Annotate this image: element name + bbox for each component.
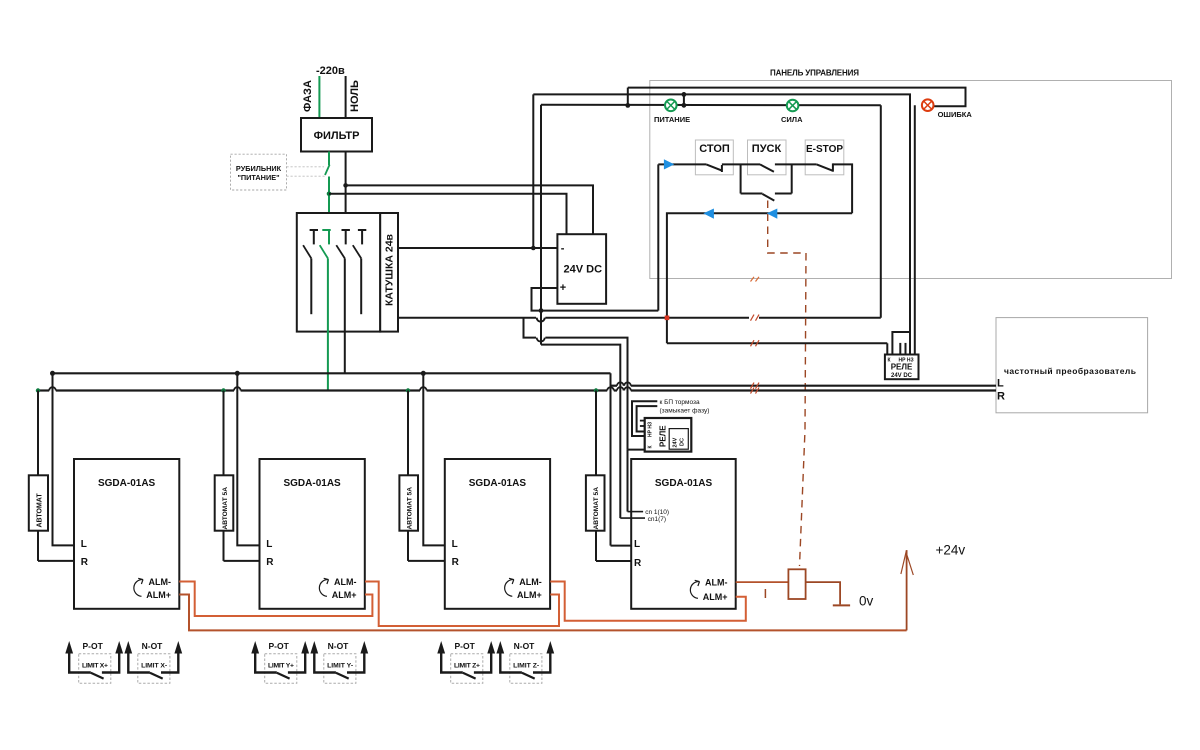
switch self-hold contact bbox=[763, 194, 775, 201]
wire E-STOP to corner and down bbox=[833, 164, 852, 213]
node junction dot phase bbox=[327, 192, 332, 197]
wire STOP to PUSK bbox=[722, 163, 760, 165]
symbol curved arrow drive2 bbox=[319, 578, 328, 596]
svg-text:N-OT: N-OT bbox=[514, 641, 536, 651]
wire bus L jog to freq converter L bbox=[611, 382, 997, 385]
dashed actuation link bbox=[765, 201, 806, 599]
limit switch P-OT LIMIT Y+ bbox=[251, 641, 309, 683]
pin cn1(10) stub bbox=[628, 509, 670, 516]
svg-text:КАТУШКА 24в: КАТУШКА 24в bbox=[384, 233, 396, 306]
wire bus L corner down (feeds drive4 L and freq L) bbox=[610, 373, 612, 545]
svg-text:ALM+: ALM+ bbox=[703, 592, 728, 602]
wire top feed (y=94.4) into panel to relay bbox=[533, 94, 910, 354]
breaker QF3 АВТОМАТ 5А bbox=[399, 475, 418, 530]
power supply 24V DC box bbox=[557, 234, 606, 304]
svg-text:DC: DC bbox=[680, 438, 686, 446]
svg-text:АВТОМАТ 5А: АВТОМАТ 5А bbox=[593, 487, 600, 530]
wire to brake PSU (k BP tormoza) bbox=[632, 399, 700, 436]
svg-text:(замыкает фазу): (замыкает фазу) bbox=[660, 408, 710, 415]
wire drive4 R tap via breaker bbox=[596, 391, 631, 562]
svg-text:ФАЗА: ФАЗА bbox=[302, 80, 314, 112]
contactor K1 box bbox=[297, 213, 398, 332]
ground 0v symbol bbox=[833, 594, 874, 609]
svg-text:+: + bbox=[560, 282, 566, 294]
bus L (upper) bbox=[53, 372, 611, 374]
svg-text:LIMIT Z+: LIMIT Z+ bbox=[454, 663, 480, 670]
switch PUSK contact bbox=[760, 164, 774, 171]
node PHASE label (rotated) bbox=[302, 80, 314, 112]
svg-text:R: R bbox=[634, 558, 642, 569]
svg-text:L: L bbox=[997, 377, 1004, 389]
svg-text:частотный преобразователь: частотный преобразователь bbox=[1004, 366, 1136, 376]
servo drive SGDA-01AS #3 bbox=[445, 459, 550, 609]
node NEUTRAL label (rotated) bbox=[349, 80, 361, 112]
servo drive SGDA-01AS #2 bbox=[260, 459, 365, 609]
svg-text:24V: 24V bbox=[673, 437, 679, 447]
button PUSK box bbox=[748, 140, 787, 175]
svg-text:R: R bbox=[997, 391, 1005, 403]
svg-text:ОШИБКА: ОШИБКА bbox=[938, 110, 973, 119]
wire drive2 R tap via breaker bbox=[224, 391, 260, 561]
wire vertical to PITANIE lamp wire bbox=[540, 105, 542, 345]
wire cn1(7) feed (lower hook) bbox=[541, 345, 620, 518]
switch STOP contact bbox=[706, 164, 722, 172]
arrow blue left 1 bbox=[703, 209, 714, 219]
indicator lamp PITANIE bbox=[654, 100, 690, 124]
svg-text:РЕЛЕ: РЕЛЕ bbox=[891, 363, 913, 372]
svg-text:ПАНЕЛЬ УПРАВЛЕНИЯ: ПАНЕЛЬ УПРАВЛЕНИЯ bbox=[770, 69, 859, 78]
svg-text:ALM+: ALM+ bbox=[146, 590, 171, 600]
wire ALM chain drive1- to drive2+ bbox=[179, 582, 372, 617]
wire ALM drive1+ to +24v rail bbox=[179, 595, 906, 631]
svg-text:+24v: +24v bbox=[936, 543, 966, 558]
wire self-hold branch left vertical bbox=[740, 164, 742, 193]
node bus R green taps bbox=[36, 388, 40, 392]
svg-text:LIMIT X-: LIMIT X- bbox=[141, 663, 167, 670]
svg-text:N-OT: N-OT bbox=[142, 641, 164, 651]
svg-text:N-OT: N-OT bbox=[328, 641, 350, 651]
breaker QF2 АВТОМАТ 5А bbox=[215, 475, 234, 530]
wire relay coil pin k from cn1(10) net bbox=[628, 449, 645, 451]
cable crossing hash marks bbox=[749, 277, 759, 394]
servo drive SGDA-01AS #1 bbox=[74, 459, 179, 609]
svg-text:E-STOP: E-STOP bbox=[806, 144, 843, 155]
servo drive SGDA-01AS #4 bbox=[631, 459, 736, 609]
wire crossing hop on SILA return bbox=[537, 318, 545, 322]
wire drive4 ALM- to relay coil bbox=[736, 581, 789, 583]
wire PUSK to E-STOP bbox=[775, 163, 817, 165]
relay U2 РЕЛЕ 24V DC (rotated) bbox=[645, 418, 692, 452]
wire to relay coil pin K bbox=[667, 342, 887, 344]
wire cn1(10) feed from SILA return bbox=[524, 318, 628, 512]
wire zamykaet fazu bbox=[637, 406, 710, 431]
node dot minus-wire junction bbox=[531, 246, 536, 251]
contactor pole 1 bbox=[303, 230, 318, 314]
arrow blue left 2 bbox=[767, 209, 778, 219]
button STOP box bbox=[695, 140, 733, 175]
wire start vertical down to +24 loop bbox=[657, 164, 659, 310]
svg-text:P-OT: P-OT bbox=[83, 641, 104, 651]
svg-text:LIMIT Y-: LIMIT Y- bbox=[327, 663, 353, 670]
svg-text:R: R bbox=[81, 557, 89, 568]
limit switch N-OT LIMIT Y- bbox=[310, 641, 368, 683]
wire drive2 L tap bbox=[237, 373, 259, 545]
node dots connector bbox=[682, 92, 687, 97]
indicator lamp OSHIBKA (red) bbox=[922, 99, 972, 119]
pin cn1(7) stub bbox=[620, 516, 666, 523]
relay (right) coil hook pin bbox=[892, 332, 910, 355]
button E-STOP box bbox=[805, 140, 844, 175]
svg-text:L: L bbox=[634, 539, 640, 550]
wire contactor lower output to panel (SILA return) bbox=[398, 318, 881, 322]
svg-text:cn 1(10): cn 1(10) bbox=[645, 509, 669, 516]
control panel enclosure bbox=[650, 69, 1172, 279]
wire self-hold branch right vertical bbox=[791, 164, 793, 193]
svg-text:ПУСК: ПУСК bbox=[752, 143, 782, 155]
svg-text:ALM+: ALM+ bbox=[332, 590, 357, 600]
wire coil to 0v bbox=[806, 582, 841, 604]
svg-text:ALM-: ALM- bbox=[519, 577, 542, 587]
wire drive1 R tap via breaker bbox=[38, 391, 74, 561]
switch disconnector (phase, green) bbox=[325, 152, 330, 231]
svg-text:АВТОМАТ 5А: АВТОМАТ 5А bbox=[222, 487, 229, 530]
limit switch P-OT LIMIT X+ bbox=[65, 641, 123, 683]
svg-text:-220в: -220в bbox=[316, 65, 345, 77]
wire ALM chain drive2- to drive3+ bbox=[365, 582, 559, 627]
indicator lamp SILA bbox=[781, 100, 803, 124]
wire return line bbox=[667, 213, 852, 343]
contactor pole 4 bbox=[353, 230, 367, 314]
node -220v supply label bbox=[316, 65, 345, 77]
symbol curved arrow drive4 bbox=[690, 580, 699, 598]
svg-text:РЕЛЕ: РЕЛЕ bbox=[659, 425, 668, 447]
svg-text:НОЛЬ: НОЛЬ bbox=[349, 80, 361, 112]
svg-text:ФИЛЬТР: ФИЛЬТР bbox=[314, 130, 360, 142]
breaker QF4 АВТОМАТ 5А bbox=[586, 475, 605, 530]
wire neutral into filter bbox=[345, 76, 347, 118]
svg-text:СТОП: СТОП bbox=[699, 143, 730, 155]
svg-text:LIMIT Y+: LIMIT Y+ bbox=[268, 663, 294, 670]
wire switch row start bbox=[658, 163, 706, 165]
node dot at +24 net bbox=[539, 308, 544, 313]
svg-text:ALM-: ALM- bbox=[334, 577, 357, 587]
svg-text:SGDA-01AS: SGDA-01AS bbox=[655, 478, 713, 489]
breaker QF1 АВТОМАТ bbox=[29, 475, 48, 530]
relay (right) stub pins NR bbox=[900, 343, 905, 355]
wire vertical to panel bus (from minus wire) bbox=[532, 94, 534, 248]
limit switch P-OT LIMIT Z+ bbox=[437, 641, 495, 683]
switch E-STOP contact bbox=[817, 163, 833, 171]
wire self-hold branch bbox=[741, 193, 792, 195]
wire neutral filter to contactor bbox=[345, 152, 347, 231]
svg-text:к БП тормоза: к БП тормоза bbox=[660, 399, 701, 406]
node junction dot neutral bbox=[343, 183, 348, 188]
svg-text:SGDA-01AS: SGDA-01AS bbox=[469, 478, 527, 489]
svg-text:SGDA-01AS: SGDA-01AS bbox=[98, 478, 156, 489]
wire ALM chain drive3- to drive4+ bbox=[550, 582, 746, 621]
rubilnik PITANIE callout box bbox=[231, 154, 287, 190]
svg-text:P-OT: P-OT bbox=[269, 641, 290, 651]
relay U3 24VDC box (right) bbox=[885, 355, 919, 380]
limit switch N-OT LIMIT Z- bbox=[496, 641, 554, 683]
svg-text:R: R bbox=[266, 557, 274, 568]
wire PITANIE lamp line bbox=[541, 104, 881, 107]
contactor pole 2 (phase, green) bbox=[320, 230, 331, 391]
filter F1 bbox=[301, 118, 372, 152]
symbol curved arrow drive1 bbox=[134, 578, 143, 596]
svg-text:LIMIT X+: LIMIT X+ bbox=[82, 663, 108, 670]
power +24v riser arrow bbox=[901, 543, 965, 631]
svg-text:АВТОМАТ 5А: АВТОМАТ 5А bbox=[407, 487, 414, 530]
svg-text:0v: 0v bbox=[859, 594, 874, 609]
svg-text:L: L bbox=[266, 539, 272, 550]
relay (right) pin K drop bbox=[886, 343, 888, 354]
arrow blue right bbox=[664, 159, 674, 169]
svg-text:РУБИЛЬНИК: РУБИЛЬНИК bbox=[236, 164, 282, 173]
svg-text:LIMIT Z-: LIMIT Z- bbox=[513, 663, 539, 670]
svg-text:cn1(7): cn1(7) bbox=[648, 516, 666, 523]
wire connector right of PITANIE lamp bbox=[683, 94, 685, 105]
svg-text:ALM-: ALM- bbox=[705, 578, 728, 588]
svg-text:L: L bbox=[452, 539, 458, 550]
svg-text:24V DC: 24V DC bbox=[891, 373, 913, 379]
svg-text:P-OT: P-OT bbox=[455, 641, 476, 651]
relay U2 stub pins bbox=[640, 421, 645, 426]
wire OSHIBKA lamp to relay NZ pin bbox=[914, 105, 916, 354]
wire drive4 L tap bbox=[611, 545, 632, 547]
svg-text:ALM+: ALM+ bbox=[517, 590, 542, 600]
bus R (lower) to freq converter R bbox=[38, 387, 996, 390]
svg-text:SGDA-01AS: SGDA-01AS bbox=[283, 478, 341, 489]
svg-text:L: L bbox=[81, 539, 87, 550]
relay coil KA1 bbox=[788, 569, 805, 599]
svg-text:R: R bbox=[452, 557, 460, 568]
wire neutral tap to 24VDC (upper) bbox=[346, 185, 593, 234]
svg-text:ПИТАНИЕ: ПИТАНИЕ bbox=[654, 115, 690, 124]
wire ERROR lamp feed (y=87.6) bbox=[628, 88, 966, 107]
wire contactor upper output to 24VDC minus bbox=[398, 247, 557, 249]
symbol curved arrow drive3 bbox=[505, 578, 514, 596]
leader dashed lines to switch bbox=[287, 166, 325, 168]
limit switch N-OT LIMIT X- bbox=[124, 641, 182, 683]
svg-text:ALM-: ALM- bbox=[149, 577, 172, 587]
wire drive3 L tap bbox=[423, 373, 445, 545]
wire SILA lamp down to return bbox=[880, 105, 882, 317]
node bus L dots bbox=[50, 371, 55, 376]
wire connector at x=627.8 bbox=[627, 88, 629, 106]
svg-text:АВТОМАТ: АВТОМАТ bbox=[37, 493, 44, 528]
contactor pole 3 (neutral) bbox=[336, 230, 350, 373]
wire drive1 L tap bbox=[53, 373, 75, 545]
svg-text:24V DC: 24V DC bbox=[564, 264, 603, 276]
svg-text:НР НЗ: НР НЗ bbox=[648, 422, 654, 437]
wire drive3 R tap via breaker bbox=[408, 391, 445, 561]
node dot x=627.8 on lamp wire bbox=[625, 103, 630, 108]
frequency converter box bbox=[996, 318, 1148, 413]
wire phase (green) into filter bbox=[318, 76, 320, 118]
svg-text:СИЛА: СИЛА bbox=[781, 115, 803, 124]
wire 24VDC plus loop to panel start bbox=[532, 288, 659, 311]
svg-text:-: - bbox=[561, 243, 565, 255]
wire phase tap to 24VDC (lower) bbox=[329, 194, 567, 234]
svg-text:"ПИТАНИЕ": "ПИТАНИЕ" bbox=[237, 173, 279, 182]
node red dot return/SILA junction bbox=[665, 316, 670, 321]
